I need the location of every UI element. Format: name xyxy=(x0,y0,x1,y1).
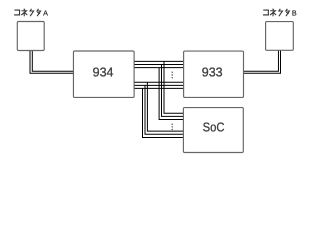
svg-text:SoC: SoC xyxy=(203,121,225,135)
svg-text:A: A xyxy=(43,8,48,17)
svg-text:934: 934 xyxy=(93,66,114,80)
svg-text:933: 933 xyxy=(202,66,223,80)
svg-text:B: B xyxy=(292,8,297,17)
